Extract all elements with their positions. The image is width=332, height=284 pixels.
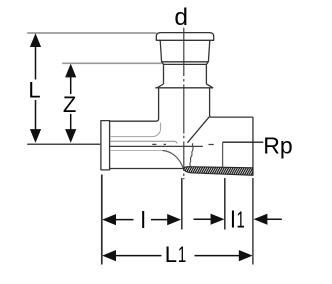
svg-text:Z: Z bbox=[63, 92, 76, 117]
svg-text:1: 1 bbox=[178, 242, 186, 267]
svg-text:d: d bbox=[174, 4, 188, 31]
svg-text:l: l bbox=[141, 207, 146, 233]
svg-text:L: L bbox=[165, 242, 177, 267]
svg-text:Rp: Rp bbox=[263, 132, 292, 158]
svg-text:L: L bbox=[28, 77, 40, 102]
svg-text:1: 1 bbox=[237, 208, 245, 233]
svg-text:l: l bbox=[230, 206, 235, 232]
